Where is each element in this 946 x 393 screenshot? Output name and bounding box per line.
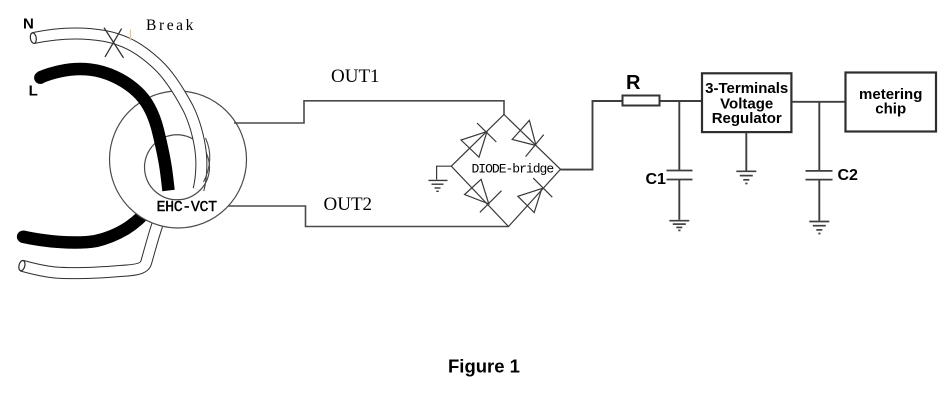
bridge ground stub wire	[437, 166, 452, 179]
bridge ground symbol	[429, 180, 448, 191]
live wire L start rounded end	[34, 72, 46, 84]
metering chip box	[846, 73, 937, 132]
neutral wire N start end cap	[30, 32, 38, 43]
svg-text:C2: C2	[838, 167, 859, 184]
live wire L top segment (over toroid into hole)	[40, 69, 169, 190]
svg-text:N: N	[23, 16, 34, 33]
diode D4 (bottom-right arm)	[518, 178, 552, 212]
toroid hole bottom edge (over cables)	[145, 174, 209, 200]
svg-text:chip: chip	[875, 101, 906, 118]
diode bridge diamond outline	[451, 115, 560, 227]
svg-text:R: R	[626, 72, 641, 94]
diode D3 (left-bottom arm)	[465, 179, 502, 212]
break mark X on neutral wire	[104, 28, 124, 58]
break cursor tan mark	[130, 30, 131, 41]
ground symbol C2	[809, 222, 829, 234]
neutral wire N bottom sweep (under toroid)	[22, 205, 165, 273]
wire bridge output to regulator	[561, 101, 703, 170]
svg-text:L: L	[29, 83, 38, 100]
capacitor C2 stem top	[818, 102, 820, 171]
capacitor C1 stem top	[678, 101, 680, 171]
wire regulator to metering chip	[791, 101, 845, 103]
svg-text:DIODE-bridge: DIODE-bridge	[472, 162, 554, 177]
svg-text:C1: C1	[646, 171, 667, 188]
toroid CT hole upper edge	[145, 135, 210, 174]
svg-text:Regulator: Regulator	[712, 110, 782, 127]
capacitor C2 plates	[806, 171, 833, 180]
resistor R body	[623, 96, 660, 106]
wire OUT2 from toroid to bridge	[228, 206, 509, 227]
toroid hole depth arc	[204, 138, 210, 182]
svg-text:OUT1: OUT1	[331, 66, 380, 87]
svg-text:OUT2: OUT2	[324, 194, 373, 215]
live wire L bottom arc (under toroid)	[22, 208, 149, 243]
capacitor C2 stem bottom	[818, 180, 820, 221]
diode D1 (left-top arm)	[461, 123, 496, 157]
svg-text:EHC-VCT: EHC-VCT	[157, 199, 218, 216]
regulator U1 box	[702, 73, 791, 132]
svg-text:Figure 1: Figure 1	[448, 356, 520, 377]
toroid CT body (outer circle)	[110, 91, 247, 228]
capacitor C1 plates	[667, 171, 693, 180]
neutral wire N top segment (over toroid into hole)	[34, 34, 202, 190]
svg-text:Break: Break	[146, 17, 196, 34]
regulator ground stem	[745, 132, 747, 170]
live wire L bottom rounded end	[17, 231, 29, 243]
neutral wire N bottom end cap	[18, 260, 26, 271]
ground symbol C1	[669, 221, 689, 231]
capacitor C1 stem bottom	[678, 180, 680, 220]
wire OUT1 from toroid to bridge	[234, 101, 504, 123]
diode D2 (top-right arm)	[512, 120, 544, 156]
ground symbol regulator	[736, 171, 756, 183]
